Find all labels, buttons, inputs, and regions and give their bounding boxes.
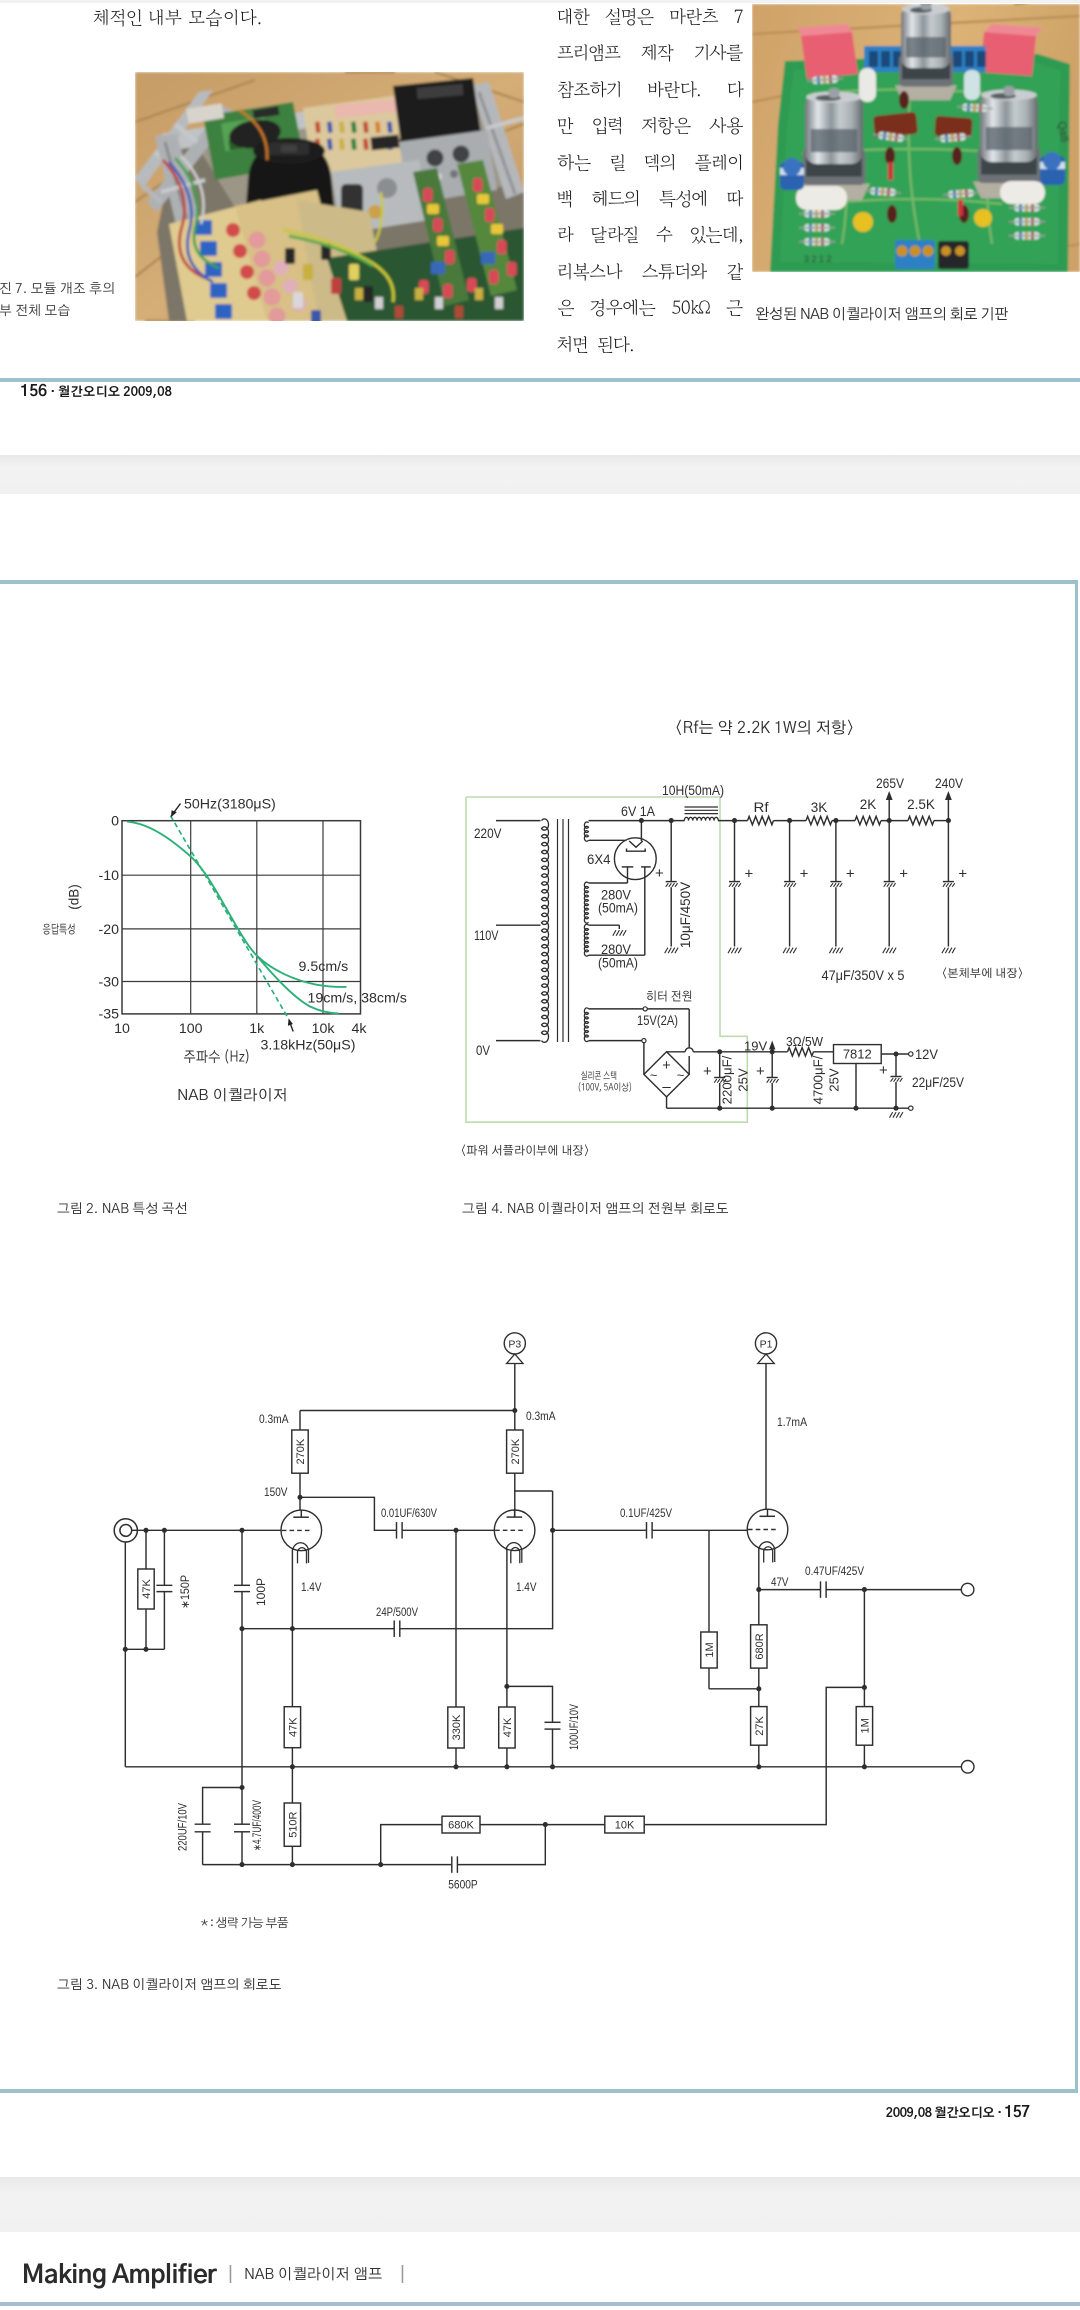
transformer T1 heater 15V winding [584, 1008, 588, 1042]
capacitor 0.1UF/425V [647, 1522, 653, 1539]
resistor 680K [442, 1816, 480, 1833]
wire heater top to bridge AC right [647, 1009, 689, 1074]
svg-text:0.3mA: 0.3mA [526, 1409, 556, 1423]
svg-text:510R: 510R [287, 1811, 299, 1837]
label 47V [771, 1577, 789, 1589]
svg-text:(100V, 5A이상): (100V, 5A이상) [578, 1081, 633, 1094]
svg-text:+: + [879, 1062, 888, 1079]
wire [934, 820, 948, 822]
wire input shield down [124, 1542, 126, 1767]
svg-text:〈파워 서플라이부에 내장〉: 〈파워 서플라이부에 내장〉 [460, 1145, 590, 1158]
resistor 1M (V3 grid) [701, 1530, 717, 1689]
svg-text:P3: P3 [508, 1339, 521, 1351]
svg-text:1M: 1M [859, 1718, 871, 1733]
graph labels [43, 797, 407, 1105]
wire 24P line [242, 1628, 394, 1630]
label (파워 서플라이부에 내장) [460, 1145, 590, 1158]
svg-text:1.4V: 1.4V [301, 1580, 322, 1594]
svg-text:〈본체부에 내장〉: 〈본체부에 내장〉 [941, 967, 1024, 980]
svg-text:+: + [655, 865, 664, 882]
capacitor 47uF/350V #4 [883, 821, 896, 954]
junction 100P / 24P line [239, 1626, 244, 1631]
junction reservoir cap [669, 818, 674, 823]
svg-text:주파수 (Hz): 주파수 (Hz) [184, 1049, 251, 1065]
label 150V [264, 1485, 288, 1499]
label + [879, 1062, 888, 1079]
label 2.5K [907, 797, 935, 812]
wire 10K to NFB takeoff [644, 1687, 864, 1824]
capacitor 2200uF/25V [714, 1052, 726, 1108]
junction P3 rail [512, 1408, 517, 1413]
annotation arrow 3.18kHz [288, 1018, 293, 1031]
svg-text:0.3mA: 0.3mA [259, 1412, 289, 1426]
svg-text:270K: 270K [510, 1438, 522, 1464]
power supply inner chassis outline (green) [466, 797, 747, 1122]
terminal P1 [755, 1333, 776, 1364]
svg-text:+: + [899, 866, 908, 883]
label *4.7UF/400V [252, 1800, 264, 1851]
svg-text:∗150P: ∗150P [180, 1575, 192, 1609]
label 0.3mA (V2) [526, 1409, 556, 1423]
transformer T1 secondary 6V winding [584, 822, 588, 841]
choke 10H(50mA) [684, 807, 718, 821]
label 12V [915, 1047, 938, 1062]
label 2200uF/25V [720, 1055, 751, 1104]
svg-text:-35: -35 [98, 1006, 119, 1022]
capacitor *150P [156, 1530, 172, 1649]
terminal output hot [961, 1583, 974, 1596]
triode V2 [494, 1510, 535, 1564]
label 10H(50mA) [662, 783, 724, 798]
svg-text:3Ω/5W: 3Ω/5W [786, 1034, 824, 1049]
svg-text:680R: 680R [754, 1633, 766, 1659]
svg-text:110V: 110V [474, 927, 499, 943]
capacitor 47uF/350V #2 [783, 821, 796, 954]
svg-text:P1: P1 [760, 1339, 773, 1351]
arrow 265V [886, 791, 893, 821]
wire regulator output [881, 1053, 909, 1055]
capacitor 10uF/450V [665, 821, 678, 954]
wire choke to Rf chain [718, 820, 748, 822]
label + (10uF) [655, 865, 664, 882]
svg-text:0.1UF/425V: 0.1UF/425V [620, 1508, 672, 1520]
label + [899, 866, 908, 883]
capacitor 22uF/25V [891, 1054, 903, 1108]
wire center tap [589, 925, 620, 929]
svg-text:∗4.7UF/400V: ∗4.7UF/400V [252, 1800, 264, 1851]
wire heater top lead [589, 1008, 644, 1010]
ground center tap [613, 930, 626, 936]
wire V2 plate takeoff [515, 1490, 553, 1492]
DC return rail [667, 1097, 909, 1108]
svg-text:50Hz(3180μS): 50Hz(3180μS) [184, 797, 276, 813]
label 100UF/10V [569, 1704, 581, 1750]
junction 6X4 cathode/bus [639, 818, 644, 823]
svg-text:5600P: 5600P [448, 1880, 478, 1892]
svg-text:+: + [958, 866, 967, 883]
svg-text:1.7mA: 1.7mA [777, 1415, 807, 1429]
transformer T1 core [558, 819, 569, 1042]
triode V1 [281, 1510, 322, 1564]
capacitor 0.47UF/425V [821, 1581, 827, 1598]
label + [745, 866, 754, 883]
note Rf value [674, 719, 855, 737]
svg-text:0.01UF/630V: 0.01UF/630V [381, 1508, 437, 1520]
svg-text:10: 10 [114, 1021, 130, 1037]
svg-text:7812: 7812 [843, 1047, 872, 1062]
svg-text:6X4: 6X4 [587, 852, 611, 867]
svg-text:330K: 330K [451, 1714, 463, 1740]
wire 0V lead [496, 1040, 541, 1042]
arrow 240V [945, 791, 952, 821]
wire to 0.1UF [553, 1529, 647, 1531]
resistor 2K [855, 816, 881, 824]
junction [123, 1647, 128, 1652]
resistor 3K [806, 816, 832, 824]
junction [853, 1106, 858, 1111]
svg-text:19V: 19V [744, 1039, 767, 1054]
label 히터 전원 [646, 990, 693, 1004]
wire 5600P to corner [457, 1825, 545, 1865]
svg-text:0: 0 [111, 814, 119, 830]
junction [143, 1647, 148, 1652]
label 220V [474, 825, 502, 841]
label 15V(2A) [637, 1013, 678, 1028]
junction filter node 1 [732, 818, 737, 823]
label 0.1UF/425V [620, 1508, 672, 1520]
wire [881, 820, 908, 822]
svg-text:19cm/s, 38cm/s: 19cm/s, 38cm/s [308, 991, 407, 1007]
resistor 270K (V1 plate) [292, 1411, 308, 1498]
bridge rectifier (silicon stack) [644, 1052, 689, 1097]
label 280V (50mA) #2 [598, 942, 638, 971]
transformer T1 primary winding [542, 819, 549, 1042]
label 0V [476, 1042, 491, 1058]
label 1.4V (V1 cathode) [301, 1580, 322, 1594]
wire 0.1UF to V3 grid [652, 1529, 747, 1531]
junction V2 plate riser / output [550, 1528, 555, 1533]
resistor 1M (output load) [856, 1707, 872, 1767]
terminal output cold [961, 1761, 974, 1774]
wire bus to choke [641, 820, 684, 822]
capacitor 220UF/10V [195, 1788, 242, 1865]
resistor 510R [284, 1767, 300, 1865]
svg-text:22μF/25V: 22μF/25V [912, 1075, 964, 1090]
junction [504, 1764, 509, 1769]
svg-text:2.5K: 2.5K [907, 797, 935, 812]
label 6X4 [587, 852, 611, 867]
svg-text:47μF/350V x 5: 47μF/350V x 5 [822, 968, 905, 983]
junction [770, 1106, 775, 1111]
svg-text:3K: 3K [811, 800, 828, 815]
wire 24P to V2 plate riser [400, 1491, 553, 1629]
terminal P3 [504, 1333, 525, 1364]
wire heater bottom lead [589, 1040, 642, 1042]
resistor 47K (V2 cathode) [499, 1686, 515, 1766]
svg-text:〈Rf는 약 2.2K 1W의 저항〉: 〈Rf는 약 2.2K 1W의 저항〉 [674, 719, 855, 737]
svg-text:히터 전원: 히터 전원 [646, 990, 693, 1004]
junction V1 cathode / 24P line [290, 1626, 295, 1631]
wire tie 47K/150P bottoms [125, 1648, 164, 1650]
junction on ground bus [290, 1764, 295, 1769]
resistor 680R [751, 1590, 767, 1689]
capacitor 0.01UF/630V [397, 1522, 403, 1539]
capacitor 24P/500V [394, 1620, 400, 1637]
resistor 47K input [138, 1530, 154, 1649]
resistor 2.5K [908, 816, 934, 824]
wire 280V#1 to plate [589, 882, 628, 884]
wire P3 drop [514, 1364, 516, 1411]
wire 1M bottom to cathode node [709, 1688, 759, 1690]
svg-text:220UF/10V: 220UF/10V [178, 1803, 190, 1851]
capacitor 100UF/10V (V2 cathode bypass) [507, 1686, 561, 1766]
svg-text:47K: 47K [141, 1579, 153, 1599]
junction 680K/5600P [543, 1822, 548, 1827]
triode V3 [747, 1509, 788, 1563]
svg-text:2200μF/: 2200μF/ [720, 1055, 735, 1104]
terminal heater top [643, 1007, 647, 1011]
svg-text:-10: -10 [98, 868, 119, 884]
svg-text:10H(50mA): 10H(50mA) [662, 783, 724, 798]
wire P3 feed rail [300, 1410, 515, 1412]
svg-text:+: + [846, 866, 855, 883]
label 100P [256, 1578, 268, 1606]
capacitor 4700uF/25V [767, 1052, 779, 1108]
response curve 9.5cm/s [127, 822, 347, 987]
svg-text:+: + [745, 866, 754, 883]
junction filter node 5 [946, 818, 951, 823]
junction 2200uF [717, 1049, 722, 1054]
svg-text:25V: 25V [827, 1068, 842, 1092]
junction 4.7UF / NFB bus [239, 1862, 244, 1867]
label 0.47UF/425V [805, 1566, 864, 1578]
label 47uF/350V x 5 [822, 968, 905, 983]
wire V2 cathode [506, 1550, 508, 1687]
annotation arrow 50Hz [171, 804, 181, 818]
label 1.7mA [777, 1415, 807, 1429]
wire 680K to 10K [480, 1824, 605, 1826]
wire [774, 820, 807, 822]
ground bus [125, 1766, 961, 1768]
wire V3 cathode [758, 1549, 760, 1590]
junction 330K / bus [453, 1764, 458, 1769]
label 실리콘 스택 (100V, 5A이상) [578, 1070, 633, 1094]
response curve 19cm/s,38cm/s [257, 956, 339, 1014]
label 265V [876, 776, 904, 791]
wire to regulator [814, 1051, 834, 1053]
wire 6V winding top lead to bus [589, 820, 642, 822]
svg-text:265V: 265V [876, 776, 904, 791]
svg-text:+: + [756, 1063, 765, 1080]
junction V1 plate [297, 1495, 302, 1500]
svg-text:~: ~ [650, 1068, 658, 1083]
terminal 12V [909, 1052, 913, 1056]
junction 1M / bus [862, 1764, 867, 1769]
svg-text:응답특성: 응답특성 [43, 923, 76, 937]
svg-text:(dB): (dB) [67, 884, 82, 910]
input jack [114, 1519, 137, 1542]
capacitor 100P [234, 1530, 250, 1628]
wire input to V1 grid [132, 1529, 282, 1531]
label 0.01UF/630V [381, 1508, 437, 1520]
junction 22uF [893, 1051, 898, 1056]
svg-text:+: + [703, 1063, 712, 1080]
label *150P [180, 1575, 192, 1609]
label 19V [744, 1039, 767, 1054]
junction V2 cathode [504, 1684, 509, 1689]
wire P1 to V3 plate [765, 1364, 767, 1510]
label 3K [811, 800, 828, 815]
label + [703, 1063, 712, 1080]
svg-text:~: ~ [677, 1068, 685, 1083]
svg-text:3.18kHz(50μS): 3.18kHz(50μS) [261, 1038, 356, 1054]
wire 100P node down [241, 1629, 243, 1788]
svg-text:+: + [800, 866, 809, 883]
wire DC+ rail with hop over AC lead [667, 1048, 788, 1052]
svg-text:240V: 240V [935, 776, 963, 791]
label + [800, 866, 809, 883]
svg-text:100: 100 [179, 1021, 203, 1037]
svg-text:+: + [662, 1058, 670, 1074]
label 5600P [448, 1880, 478, 1892]
resistor 47K (V1 cathode) [284, 1629, 300, 1767]
wire V1 cathode [291, 1550, 293, 1629]
svg-text:150V: 150V [264, 1485, 288, 1499]
svg-text:9.5cm/s: 9.5cm/s [299, 959, 349, 975]
wire output [826, 1589, 961, 1591]
junction 680K riser [378, 1862, 383, 1867]
junction filter node 4 [887, 818, 892, 823]
svg-text:12V: 12V [915, 1047, 938, 1062]
wire V1 plate to coupling cap [300, 1497, 396, 1530]
label 110V [474, 927, 499, 943]
resistor 27K [751, 1689, 767, 1767]
svg-text:47V: 47V [771, 1577, 789, 1589]
label Rf [754, 800, 769, 815]
svg-text:25V: 25V [736, 1068, 751, 1092]
transformer T1 secondary 280V winding #1 [584, 882, 588, 923]
svg-text:4k: 4k [352, 1021, 368, 1037]
svg-text:2K: 2K [860, 797, 877, 812]
label 4700uF/25V [811, 1055, 842, 1104]
capacitor *4.7UF/400V [234, 1788, 250, 1865]
NFB bus [203, 1864, 452, 1866]
junction V2 grid / 330K [453, 1528, 458, 1533]
regulator 7812 [834, 1045, 882, 1064]
label 10uF/450V [678, 882, 693, 948]
junction output / 1M load [862, 1587, 867, 1592]
terminal 0V out [909, 1106, 913, 1110]
junction 27K / bus [756, 1764, 761, 1769]
junction 150P [162, 1528, 167, 1533]
label + [756, 1063, 765, 1080]
label 6V 1A [621, 804, 655, 819]
svg-text:100UF/10V: 100UF/10V [569, 1704, 581, 1750]
junction [717, 1106, 722, 1111]
asymptote dashed line 50Hz-3.18kHz [171, 816, 289, 1020]
label + [958, 866, 967, 883]
label 0.3mA (V1) [259, 1412, 289, 1426]
transformer T1 secondary 280V winding #2 [584, 924, 588, 956]
label 22uF/25V [912, 1075, 964, 1090]
junction NFB takeoff [862, 1685, 867, 1690]
junction 220UF/4.7UF top [239, 1785, 244, 1790]
wire coupling to V2 grid [402, 1529, 494, 1531]
wire 110V tap [496, 924, 541, 926]
svg-text:270K: 270K [295, 1438, 307, 1464]
wire 1M load riser [863, 1590, 865, 1707]
label 280V (50mA) #1 [598, 888, 638, 916]
label (본체부에 내장) [941, 967, 1024, 980]
label 1.4V (V2 cathode) [516, 1580, 537, 1594]
junction 680R/1M/27K [756, 1686, 761, 1691]
svg-text:10k: 10k [312, 1021, 336, 1037]
svg-text:24P/500V: 24P/500V [376, 1607, 418, 1619]
svg-text:680K: 680K [448, 1820, 474, 1832]
arrow 19V [769, 1041, 775, 1052]
ground symbol rail [890, 1112, 903, 1118]
wire heater bottom to bridge AC left [643, 1043, 645, 1075]
wire 6V winding bottom lead [589, 839, 627, 841]
svg-text:-20: -20 [98, 922, 119, 938]
svg-text:47K: 47K [287, 1717, 299, 1737]
svg-text:100P: 100P [256, 1578, 268, 1606]
svg-text:(50mA): (50mA) [598, 956, 638, 971]
junction 19V node [770, 1049, 775, 1054]
wire V3 cathode to output cap [759, 1589, 820, 1591]
capacitor 47uF/350V #5 [942, 821, 955, 954]
svg-text:-30: -30 [98, 975, 119, 991]
svg-text:0V: 0V [476, 1042, 491, 1058]
rectifier tube 6X4 [614, 821, 656, 956]
svg-text:6V 1A: 6V 1A [621, 804, 655, 819]
junction [893, 1106, 898, 1111]
svg-text:10μF/450V: 10μF/450V [678, 882, 693, 948]
wire 280V#2 to plate [589, 954, 645, 956]
resistor Rf [748, 816, 774, 824]
svg-text:NAB 이퀄라이저: NAB 이퀄라이저 [177, 1087, 288, 1104]
svg-text:0.47UF/425V: 0.47UF/425V [805, 1566, 864, 1578]
junction 47K input [143, 1528, 148, 1533]
svg-text:(50mA): (50mA) [598, 901, 638, 916]
label 240V [935, 776, 963, 791]
terminal heater bottom [642, 1039, 646, 1043]
svg-text:1k: 1k [249, 1021, 265, 1037]
label + [846, 866, 855, 883]
junction 510R / NFB bus [290, 1862, 295, 1867]
resistor 3ohm/5W [788, 1048, 814, 1056]
wire V1 plate [299, 1497, 301, 1510]
label 2K [860, 797, 877, 812]
svg-text:1M: 1M [704, 1642, 716, 1657]
junction filter node 3 [833, 818, 838, 823]
label 220UF/10V [178, 1803, 190, 1851]
svg-text:220V: 220V [474, 825, 502, 841]
resistor 270K (V2 plate) [507, 1411, 523, 1517]
resistor 330K (V2 grid) [448, 1530, 464, 1767]
wire riser to 680K [381, 1825, 442, 1865]
svg-text:1.4V: 1.4V [516, 1580, 537, 1594]
junction 100UF / bus [550, 1764, 555, 1769]
regulator ground lead [855, 1064, 857, 1109]
junction filter node 2 [787, 818, 792, 823]
capacitor 47uF/350V #1 [728, 821, 741, 954]
resistor 10K [605, 1816, 644, 1833]
capacitor 47uF/350V #3 [829, 821, 842, 954]
svg-text:–: – [662, 1079, 671, 1096]
wire 220V lead [496, 820, 541, 822]
graph frame (fig.2 NAB curve) [122, 821, 361, 1014]
